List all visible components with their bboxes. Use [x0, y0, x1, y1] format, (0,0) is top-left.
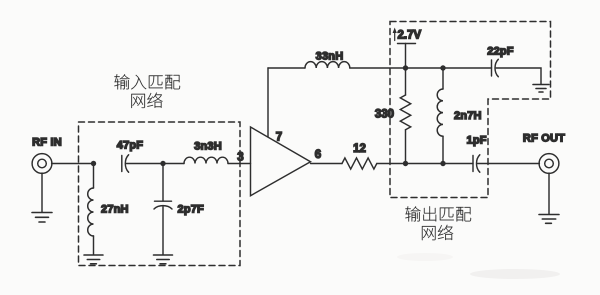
svg-text:33nH: 33nH	[316, 51, 344, 63]
wire 1pF to RF OUT	[478, 163, 540, 165]
wire top rail left	[268, 67, 305, 69]
resistor R2 12	[342, 158, 377, 169]
svg-text:2.7V: 2.7V	[398, 30, 422, 42]
wire node C to node D	[406, 163, 444, 165]
wire top rail to 22pF	[350, 67, 492, 69]
wire node A down to 27nH	[93, 164, 95, 189]
wire amp output	[311, 163, 343, 165]
inductor L3 33nH	[305, 62, 350, 68]
wire 3n3H to amp pin 3	[228, 163, 251, 165]
inductor L4 2n7H (vertical)	[437, 89, 443, 136]
output matching network dashed box	[390, 22, 551, 198]
node C top junction dot	[403, 65, 408, 70]
svg-text:22pF: 22pF	[487, 46, 514, 58]
resistor R1 330 (vertical)	[400, 95, 410, 130]
node B junction dot	[160, 161, 165, 166]
capacitor C3 1pF	[472, 156, 474, 172]
label: output matching network (Chinese) line 2	[422, 226, 436, 240]
wire 22pF to corner	[496, 68, 541, 84]
svg-text:7: 7	[276, 132, 282, 144]
svg-text:27nH: 27nH	[101, 204, 129, 216]
svg-text:3n3H: 3n3H	[194, 141, 222, 153]
wire L4 to node D	[442, 136, 444, 163]
node A junction dot	[91, 161, 96, 166]
svg-text:2n7H: 2n7H	[454, 110, 482, 122]
node D junction dot	[440, 161, 445, 166]
ground (27nH)	[84, 255, 103, 264]
supply rail T bar	[398, 43, 416, 45]
svg-text:47pF: 47pF	[117, 140, 144, 152]
wire top rail to L4	[442, 68, 444, 89]
wire 27nH to ground	[93, 236, 95, 255]
wire RF IN ground stem	[41, 173, 43, 212]
svg-text:330: 330	[375, 109, 394, 121]
label: input matching network (Chinese) line 1	[114, 74, 129, 89]
wire node D to 1pF	[443, 163, 473, 165]
wire node B to 3n3H	[163, 163, 184, 165]
label: output matching network (Chinese) line 1	[405, 206, 420, 221]
wire 47pF to node B	[126, 163, 163, 165]
wire pin 7 up to top rail	[267, 68, 269, 137]
node D top junction dot	[440, 65, 445, 70]
op-amp U1 (RF amplifier triangle)	[251, 127, 311, 196]
svg-text:RF IN: RF IN	[32, 137, 62, 149]
svg-text:3: 3	[237, 152, 243, 164]
svg-text:12: 12	[353, 143, 366, 155]
wire supply to top rail	[405, 44, 407, 69]
capacitor C2 2p7F (shunt)	[155, 200, 172, 202]
capacitor C1 47pF	[121, 156, 123, 172]
inductor L2 3n3H	[184, 157, 228, 163]
faint scan smudge	[470, 269, 560, 279]
connector J2 RF OUT	[539, 154, 559, 174]
capacitor C4 22pF	[491, 60, 493, 76]
node C junction dot	[403, 161, 408, 166]
svg-text:6: 6	[315, 149, 321, 161]
ground (2p7F)	[154, 255, 173, 264]
svg-text:1pF: 1pF	[467, 135, 487, 147]
ground (RF IN)	[32, 213, 52, 223]
svg-text:RF OUT: RF OUT	[523, 133, 565, 145]
supply arrow 2.7V	[394, 31, 396, 41]
inductor L1 27nH (shunt)	[88, 188, 94, 236]
connector J1 RF IN	[32, 154, 52, 174]
wire node B down to 2p7F	[162, 164, 164, 202]
wire RF IN to node A	[52, 163, 94, 165]
label: input matching network (Chinese) line 2	[131, 94, 145, 108]
wire 2p7F to ground	[162, 207, 164, 255]
wire top rail to R1	[405, 68, 407, 95]
wire RF OUT ground stem	[548, 173, 550, 214]
wire R1 to node C	[405, 130, 407, 164]
wire resistor to node C	[377, 163, 406, 165]
ground (22pF)	[533, 85, 549, 93]
svg-text:2p7F: 2p7F	[178, 204, 205, 216]
ground (RF OUT)	[539, 215, 559, 224]
input matching network dashed box	[79, 122, 241, 266]
